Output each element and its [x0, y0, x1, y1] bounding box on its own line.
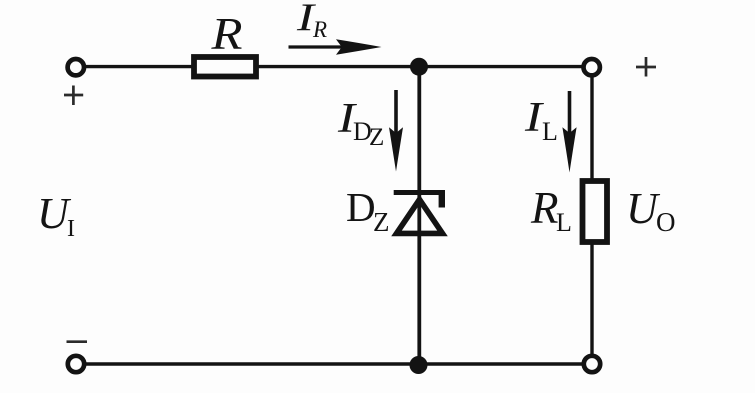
- svg-text:O: O: [656, 207, 676, 237]
- svg-text:I: I: [67, 216, 75, 242]
- svg-text:R: R: [210, 8, 242, 59]
- svg-text:Z: Z: [369, 124, 384, 151]
- svg-text:D: D: [346, 184, 376, 230]
- svg-text:R: R: [312, 17, 327, 42]
- svg-text:Z: Z: [373, 207, 390, 237]
- svg-text:R: R: [530, 183, 559, 233]
- svg-text:L: L: [556, 208, 572, 237]
- svg-text:L: L: [542, 117, 558, 146]
